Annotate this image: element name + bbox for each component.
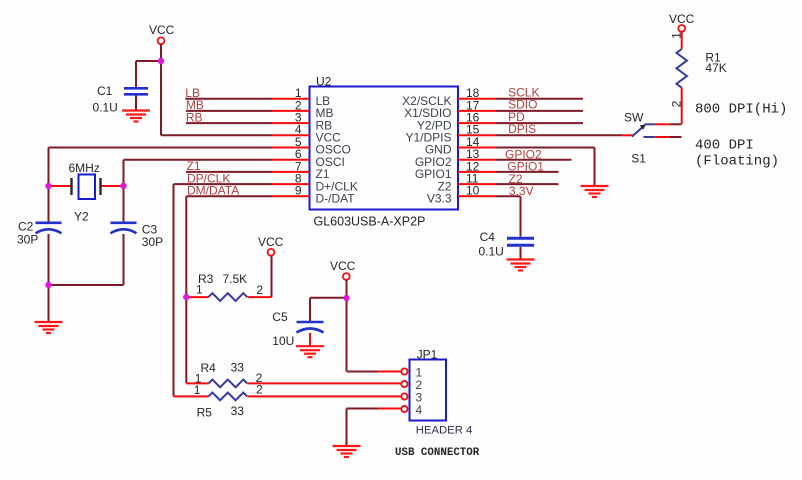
svg-text:0.1U: 0.1U [479,245,504,259]
svg-text:6MHz: 6MHz [69,161,100,175]
svg-text:C2: C2 [18,220,34,234]
svg-text:VCC: VCC [258,235,284,249]
svg-text:4: 4 [416,403,423,417]
svg-text:2: 2 [670,100,684,107]
svg-text:0.1U: 0.1U [93,101,118,115]
svg-text:V3.3: V3.3 [427,192,452,206]
svg-text:USB CONNECTOR: USB CONNECTOR [395,447,480,459]
svg-text:JP1: JP1 [417,348,438,362]
svg-text:3.3V: 3.3V [509,184,534,198]
svg-text:S1: S1 [631,152,646,166]
svg-text:R4: R4 [201,361,217,375]
svg-text:800 DPI(Hi): 800 DPI(Hi) [695,102,787,118]
svg-text:VCC: VCC [149,23,175,37]
svg-text:30P: 30P [142,235,163,249]
svg-text:400 DPI: 400 DPI [695,138,754,154]
svg-text:R5: R5 [197,406,213,420]
svg-text:1: 1 [670,32,684,39]
svg-text:1: 1 [194,383,201,397]
svg-text:VCC: VCC [330,259,356,273]
svg-text:C5: C5 [272,310,288,324]
svg-text:RB: RB [186,110,203,124]
svg-text:10U: 10U [272,334,294,348]
svg-text:30P: 30P [17,233,38,247]
svg-text:C4: C4 [480,230,496,244]
svg-text:U2: U2 [316,75,332,89]
svg-text:(Floating): (Floating) [695,154,779,170]
svg-text:Y2: Y2 [74,210,89,224]
svg-text:VCC: VCC [669,12,695,26]
svg-text:1: 1 [196,283,203,297]
svg-text:33: 33 [231,404,245,418]
svg-text:C1: C1 [97,84,113,98]
svg-text:2: 2 [256,382,263,396]
svg-text:DM/DATA: DM/DATA [187,184,239,198]
svg-text:33: 33 [231,361,245,375]
svg-text:47K: 47K [705,61,726,75]
svg-text:2: 2 [256,283,263,297]
svg-text:7.5K: 7.5K [223,272,248,286]
svg-text:SW: SW [624,111,644,125]
svg-text:DPIS: DPIS [508,122,536,136]
svg-text:D-/DAT: D-/DAT [316,192,356,206]
svg-text:GL603USB-A-XP2P: GL603USB-A-XP2P [314,215,426,229]
svg-text:HEADER 4: HEADER 4 [416,425,473,437]
